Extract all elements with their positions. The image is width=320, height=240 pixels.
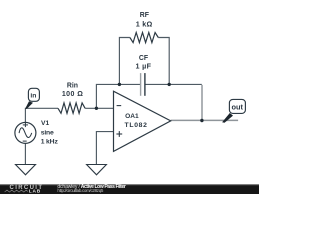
- svg-text:RF: RF: [140, 12, 149, 19]
- svg-text:1 kHz: 1 kHz: [41, 138, 59, 145]
- svg-text:1 µF: 1 µF: [136, 62, 152, 71]
- svg-text:V1: V1: [41, 120, 49, 127]
- svg-text:TL082: TL082: [125, 122, 148, 129]
- svg-text:in: in: [30, 92, 36, 99]
- svg-text:sine: sine: [41, 129, 54, 136]
- svg-text:http://circuitlab.com/c28zq5: http://circuitlab.com/c28zq5: [57, 188, 103, 193]
- svg-text:LAB: LAB: [29, 189, 41, 194]
- svg-text:1 kΩ: 1 kΩ: [136, 19, 153, 28]
- svg-text:100 Ω: 100 Ω: [62, 91, 84, 98]
- svg-text:OA1: OA1: [125, 113, 139, 120]
- svg-text:Rin: Rin: [67, 82, 78, 89]
- svg-text:out: out: [231, 102, 243, 111]
